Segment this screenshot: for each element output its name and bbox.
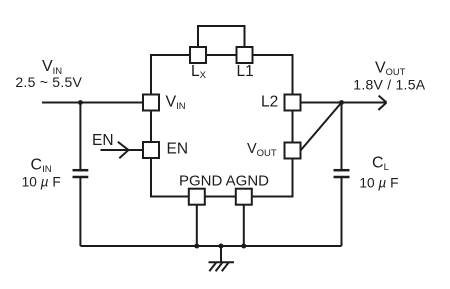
svg-text:VOUT: VOUT xyxy=(247,141,277,159)
svg-text:2.5 ~ 5.5V: 2.5 ~ 5.5V xyxy=(15,74,82,90)
svg-text:EN: EN xyxy=(167,141,189,158)
svg-text:VIN: VIN xyxy=(166,94,186,113)
svg-text:1.8V / 1.5A: 1.8V / 1.5A xyxy=(353,77,425,93)
svg-text:10 µ F: 10 µ F xyxy=(22,175,61,190)
svg-text:VOUT: VOUT xyxy=(375,60,406,78)
svg-text:CL: CL xyxy=(372,155,389,174)
svg-text:L2: L2 xyxy=(261,94,278,111)
svg-text:CIN: CIN xyxy=(31,157,52,176)
svg-text:LX: LX xyxy=(191,63,207,81)
svg-text:PGND AGND: PGND AGND xyxy=(179,173,269,190)
svg-text:10 µ F: 10 µ F xyxy=(359,176,398,191)
svg-text:EN: EN xyxy=(92,132,114,149)
svg-text:L1: L1 xyxy=(237,63,254,80)
